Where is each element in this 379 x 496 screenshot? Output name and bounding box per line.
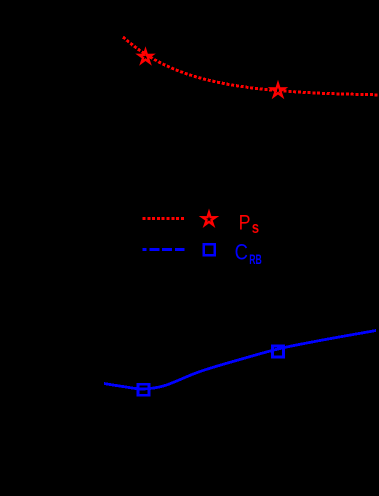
svg-text:RB: RB [249, 253, 262, 267]
legend label Ps [239, 211, 251, 235]
svg-text:C: C [235, 241, 248, 265]
legend square marker [204, 244, 215, 255]
svg-text:s: s [252, 219, 259, 238]
legend blue sample line (dashed) [143, 248, 185, 251]
legend red sample line (dotted) [143, 217, 185, 220]
legend label CRB [235, 241, 248, 265]
svg-text:P: P [239, 211, 251, 235]
blue curve CRB (solid) [104, 331, 376, 390]
star marker 1 on red curve [139, 50, 152, 62]
star marker 2 on red curve [271, 84, 284, 96]
square marker 2 on blue curve [273, 346, 284, 357]
square marker 1 on blue curve [138, 384, 149, 395]
red curve Ps (dotted) [123, 37, 379, 95]
legend label CRB subscript RB [249, 253, 262, 267]
legend star marker [202, 212, 215, 224]
legend label Ps subscript s [252, 219, 259, 238]
